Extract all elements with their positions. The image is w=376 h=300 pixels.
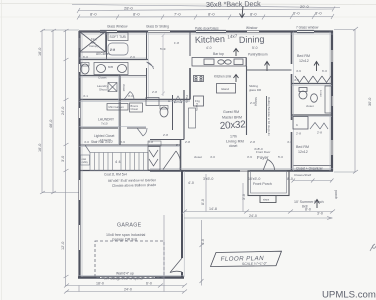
svg-text:Pantry/Broom: Pantry/Broom — [248, 53, 268, 57]
svg-text:14'-8: 14'-8 — [209, 207, 217, 211]
svg-text:12x12: 12x12 — [298, 150, 308, 154]
svg-text:5'-0: 5'-0 — [278, 155, 283, 159]
svg-text:Closet + Organizer: Closet + Organizer — [296, 167, 324, 171]
svg-text:2'-8: 2'-8 — [296, 132, 301, 136]
svg-text:Guest RM: Guest RM — [223, 110, 239, 114]
svg-text:8'-0: 8'-0 — [133, 12, 140, 17]
svg-text:Sliding: Sliding — [254, 97, 258, 106]
svg-text:closet: closet — [122, 84, 126, 92]
svg-text:Frig: Frig — [195, 99, 200, 103]
svg-text:GARAGE: GARAGE — [117, 223, 142, 229]
svg-text:Climate above Balloon shade: Climate above Balloon shade — [112, 183, 156, 188]
svg-text:7x10: 7x10 — [101, 122, 108, 126]
svg-text:8'-0: 8'-0 — [201, 199, 205, 205]
svg-text:closet: closet — [229, 144, 237, 148]
svg-text:Bed RM: Bed RM — [296, 145, 309, 149]
svg-text:8'-0: 8'-0 — [287, 177, 293, 181]
svg-text:M/B: M/B — [108, 65, 113, 69]
svg-text:7'-0: 7'-0 — [174, 12, 181, 17]
svg-text:All Closet: All Closet — [96, 52, 110, 56]
svg-text:6'-0: 6'-0 — [83, 55, 88, 59]
svg-text:24'-0: 24'-0 — [61, 107, 65, 115]
svg-text:Garage DR 9x8: Garage DR 9x8 — [112, 238, 137, 242]
svg-text:12x12: 12x12 — [299, 59, 309, 63]
svg-text:closet: closet — [194, 155, 202, 159]
svg-text:Dining: Dining — [239, 34, 265, 45]
svg-text:1'-8: 1'-8 — [174, 41, 179, 45]
svg-text:36x8 *Back Deck: 36x8 *Back Deck — [206, 0, 261, 9]
svg-text:6'-0: 6'-0 — [322, 69, 327, 73]
svg-text:3'-6: 3'-6 — [247, 155, 252, 159]
svg-text:Railing Banister w 10 steps dn: Railing Banister w 10 steps dn — [267, 97, 271, 136]
svg-text:Glass Dr Sliding: Glass Dr Sliding — [146, 25, 169, 29]
svg-text:14x7: 14x7 — [227, 33, 238, 39]
svg-text:Island: Island — [221, 87, 229, 91]
svg-text:7 Glass window: 7 Glass window — [296, 26, 319, 30]
svg-text:3'-0: 3'-0 — [128, 94, 133, 98]
svg-text:Linen: Linen — [319, 90, 323, 97]
svg-text:5'-0: 5'-0 — [252, 46, 258, 50]
svg-text:porch: porch — [334, 190, 338, 199]
svg-text:6'-0: 6'-0 — [293, 11, 300, 16]
svg-text:4'-1: 4'-1 — [83, 94, 88, 98]
svg-text:2'-8: 2'-8 — [152, 90, 157, 94]
svg-text:2'-8: 2'-8 — [163, 133, 168, 137]
svg-text:3'-0: 3'-0 — [61, 156, 65, 162]
svg-text:2'-8: 2'-8 — [317, 131, 322, 135]
svg-text:16'4x3'6: 16'4x3'6 — [100, 138, 111, 142]
svg-text:4 4: 4 4 — [115, 159, 121, 164]
svg-text:4'-0: 4'-0 — [188, 181, 194, 185]
svg-text:12'-0: 12'-0 — [61, 242, 65, 250]
svg-text:8'-0: 8'-0 — [315, 11, 322, 16]
svg-text:10' Summer Porch: 10' Summer Porch — [294, 200, 324, 204]
svg-text:Kitchen: Kitchen — [195, 34, 225, 45]
svg-text:Living RM: Living RM — [226, 139, 244, 144]
svg-text:4'-6: 4'-6 — [120, 140, 125, 144]
svg-text:steps: steps — [263, 198, 270, 202]
svg-text:Bed RM: Bed RM — [297, 54, 310, 58]
svg-text:10'x5'-0: 10'x5'-0 — [248, 177, 260, 181]
svg-text:8'-0: 8'-0 — [208, 12, 215, 17]
svg-text:4'-8: 4'-8 — [148, 140, 153, 144]
svg-text:Front Porch: Front Porch — [253, 182, 272, 186]
svg-text:3'-0: 3'-0 — [242, 194, 246, 200]
svg-text:20'-0: 20'-0 — [300, 4, 310, 9]
svg-text:cl: cl — [295, 124, 299, 126]
svg-text:30'-0: 30'-0 — [368, 98, 372, 106]
svg-text:3'-0: 3'-0 — [317, 212, 323, 216]
svg-text:4'-0: 4'-0 — [210, 155, 215, 159]
svg-text:Closet: Closet — [98, 76, 107, 80]
svg-text:glass DR: glass DR — [249, 88, 262, 92]
svg-text:Closet+Shelf: Closet+Shelf — [294, 173, 311, 177]
svg-text:20x32: 20x32 — [219, 119, 246, 132]
svg-text:Window: Window — [246, 26, 258, 30]
svg-text:Bar top: Bar top — [213, 52, 224, 56]
svg-text:cubby: cubby — [82, 161, 89, 164]
svg-text:24'-0: 24'-0 — [124, 288, 132, 292]
svg-text:4'-0: 4'-0 — [294, 78, 299, 82]
svg-text:2'-8: 2'-8 — [110, 48, 115, 52]
svg-text:SOFT TUB: SOFT TUB — [110, 35, 127, 39]
svg-text:Canopy: Canopy — [89, 44, 99, 48]
svg-text:closet: closet — [306, 104, 314, 108]
svg-text:4'-0: 4'-0 — [201, 239, 205, 245]
svg-text:2'-8: 2'-8 — [176, 143, 181, 147]
svg-text:SCALE ¼"=1'-0": SCALE ¼"=1'-0" — [242, 262, 268, 266]
svg-text:Coat 2L RM 5x4: Coat 2L RM 5x4 — [104, 173, 127, 177]
svg-text:4'-0: 4'-0 — [206, 46, 212, 50]
svg-text:UPMLS.com: UPMLS.com — [322, 290, 376, 300]
svg-text:9x7 Garage Door w/ opener: 9x7 Garage Door w/ opener — [104, 277, 144, 281]
svg-text:8'-0: 8'-0 — [250, 12, 257, 17]
svg-text:16'-0: 16'-0 — [38, 144, 42, 152]
svg-text:8'-0: 8'-0 — [90, 12, 97, 17]
svg-text:4'-0: 4'-0 — [84, 140, 89, 144]
svg-text:4'-0: 4'-0 — [287, 140, 292, 144]
svg-text:2'-8: 2'-8 — [185, 140, 190, 144]
svg-text:6'-0: 6'-0 — [146, 282, 152, 286]
svg-text:4'x8'-0: 4'x8'-0 — [254, 147, 263, 151]
svg-text:5'x9: 5'x9 — [160, 47, 166, 51]
svg-text:48'-0: 48'-0 — [49, 120, 53, 128]
svg-text:Pantry: Pantry — [185, 95, 189, 104]
svg-text:cl: cl — [167, 100, 171, 103]
svg-text:16'-0: 16'-0 — [38, 48, 42, 56]
svg-text:18'-0: 18'-0 — [96, 282, 104, 286]
svg-text:8'-0: 8'-0 — [305, 208, 311, 212]
svg-text:Shoot: Shoot — [99, 88, 107, 92]
svg-text:Foyer: Foyer — [257, 155, 269, 160]
svg-text:Glass Window: Glass Window — [107, 25, 128, 29]
svg-text:Wall 6'4" up: Wall 6'4" up — [116, 272, 134, 276]
svg-text:Kitchen sink: Kitchen sink — [214, 75, 232, 79]
svg-text:24'-0: 24'-0 — [249, 214, 257, 218]
svg-text:3'x5'-0: 3'x5'-0 — [203, 177, 213, 181]
svg-text:10x8 free span Industrial: 10x8 free span Industrial — [106, 233, 146, 237]
svg-text:2'-8: 2'-8 — [250, 140, 255, 144]
svg-text:4'-6: 4'-6 — [296, 69, 301, 73]
svg-text:28'-0: 28'-0 — [124, 6, 134, 11]
svg-text:Mini Garden: Mini Garden — [109, 105, 125, 109]
svg-text:2'-6: 2'-6 — [130, 55, 135, 59]
svg-text:Patio door/Glass: Patio door/Glass — [195, 27, 219, 31]
svg-text:Closet: Closet — [131, 107, 139, 111]
